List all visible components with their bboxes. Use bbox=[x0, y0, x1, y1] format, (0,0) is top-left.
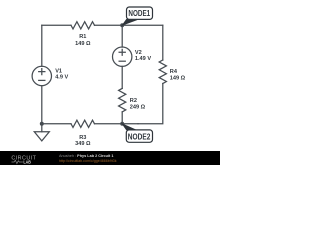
V2 minus sign bbox=[119, 60, 126, 62]
svg-text:NODE1: NODE1 bbox=[128, 9, 150, 18]
svg-text:Anusheh : Phys Lab 2 Circuit 1: Anusheh : Phys Lab 2 Circuit 1 bbox=[59, 154, 113, 158]
voltage source V2 bbox=[113, 47, 132, 66]
footer bar bbox=[0, 151, 220, 165]
svg-text:LAB: LAB bbox=[23, 159, 30, 164]
wire node B to R3 bbox=[95, 123, 123, 125]
svg-text:R2: R2 bbox=[130, 98, 137, 104]
resistor R3 bbox=[71, 120, 95, 127]
svg-text:149 Ω: 149 Ω bbox=[75, 41, 91, 47]
node NODE1 callout box bbox=[127, 7, 153, 19]
wire R3 to ground node bbox=[42, 123, 71, 125]
svg-text:V1: V1 bbox=[55, 68, 62, 74]
svg-text:1.49 V: 1.49 V bbox=[135, 56, 151, 62]
wire V1 to ground node bbox=[41, 86, 43, 124]
wire top-left corner to R1 bbox=[42, 24, 71, 26]
resistor R4 bbox=[159, 60, 166, 84]
ground triangle bbox=[34, 132, 49, 141]
V1 plus sign bbox=[38, 68, 45, 75]
node NODE1 callout tail bbox=[122, 19, 138, 25]
svg-text:R1: R1 bbox=[79, 34, 86, 40]
wire left branch top bbox=[41, 25, 43, 66]
svg-text:249 Ω: 249 Ω bbox=[130, 105, 146, 111]
svg-text:149 Ω: 149 Ω bbox=[170, 76, 186, 82]
svg-text:R4: R4 bbox=[170, 69, 178, 75]
svg-text:http://circuitlab.com/c/gge466: http://circuitlab.com/c/gge4666b9t3k bbox=[59, 159, 117, 163]
node NODE2 callout tail bbox=[122, 124, 136, 130]
wire middle branch top bbox=[121, 25, 123, 47]
resistor R2 bbox=[119, 88, 126, 112]
wire bottom-right to node B bbox=[122, 123, 138, 125]
wire V2 to R2 bbox=[121, 66, 123, 88]
wire R2 to node B bbox=[121, 112, 123, 124]
voltage source V1 bbox=[32, 66, 51, 85]
svg-text:R3: R3 bbox=[79, 135, 86, 141]
wire R4 to bottom-right corner bbox=[138, 84, 163, 124]
resistor R1 bbox=[71, 22, 95, 29]
wire R1 to node A bbox=[95, 24, 123, 26]
V1 minus sign bbox=[38, 79, 45, 81]
wire top-right corner down to R4 bbox=[162, 25, 164, 60]
junction node A dot bbox=[120, 23, 124, 27]
wire node A to top-right corner bbox=[122, 24, 163, 26]
junction ground node dot bbox=[40, 122, 44, 126]
svg-text:349 Ω: 349 Ω bbox=[75, 141, 91, 147]
V2 plus sign bbox=[119, 49, 126, 56]
svg-text:NODE2: NODE2 bbox=[128, 132, 151, 141]
node NODE2 callout box bbox=[126, 130, 152, 142]
svg-text:V2: V2 bbox=[135, 50, 142, 56]
CircuitLab logo wave bbox=[12, 160, 23, 163]
ground stem bbox=[41, 124, 43, 132]
junction node B dot bbox=[120, 122, 124, 126]
svg-text:4.9 V: 4.9 V bbox=[55, 75, 68, 81]
